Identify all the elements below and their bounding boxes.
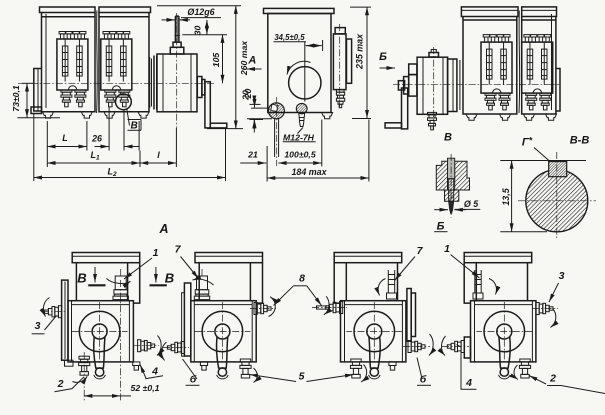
- label Г*: [522, 136, 550, 162]
- callout 7 (bv2): [175, 244, 199, 279]
- svg-text:Б: Б: [437, 221, 445, 233]
- callout 2 (bv4): [529, 373, 605, 394]
- svg-text:5: 5: [299, 371, 305, 383]
- body v3 s2: [522, 17, 556, 115]
- chained dim lines 21/100: [240, 120, 322, 182]
- feet view1: [43, 112, 54, 118]
- bv2 bottom-left screw: [167, 342, 184, 354]
- drum boss v3: [429, 53, 439, 58]
- bv4 bottom stud: [519, 359, 530, 378]
- svg-text:4: 4: [465, 377, 472, 389]
- shaft section circle: [526, 170, 588, 232]
- callout 4 (bv4): [457, 345, 477, 390]
- crank arm v3: [402, 88, 408, 129]
- bv1 bottom stud rotation arrow: [73, 376, 88, 382]
- shaft extension lines: [274, 119, 276, 157]
- label M12-7H: [283, 128, 316, 143]
- bv3 right screw rotation arrow: [429, 334, 433, 356]
- drum vertical center line: [176, 13, 178, 128]
- M12 stud front: [296, 103, 307, 113]
- dim 26: [91, 134, 139, 147]
- pin center line: [450, 154, 452, 218]
- svg-text:А: А: [158, 222, 168, 236]
- svg-text:52 ±0,1: 52 ±0,1: [131, 383, 160, 393]
- svg-text:100±0,5: 100±0,5: [284, 150, 316, 160]
- svg-text:13,5: 13,5: [501, 187, 511, 205]
- bv1 bottom-right foot: [133, 362, 140, 370]
- dim Ø5: [434, 199, 480, 210]
- side section rear plate: [347, 39, 352, 83]
- svg-text:3: 3: [35, 320, 41, 332]
- bv2 left screw rotation arrow: [162, 342, 167, 361]
- handwheel circle: [289, 67, 321, 99]
- clamp left block: [436, 161, 447, 190]
- svg-text:73±0,1: 73±0,1: [11, 85, 21, 112]
- body section 1: [42, 13, 96, 112]
- bv2 bottom stud rotation arrow: [254, 368, 258, 383]
- drum center line v3: [433, 47, 435, 131]
- bv4 left screw: [447, 341, 464, 353]
- svg-text:235 max: 235 max: [355, 33, 365, 70]
- bv2 bottom-right stud: [240, 359, 251, 378]
- dim 260max: [207, 6, 249, 129]
- callout 6 (bv2): [183, 359, 200, 386]
- bv3 right attachment: [407, 289, 411, 342]
- svg-text:В: В: [77, 271, 86, 286]
- bottom view 1 body: [68, 253, 140, 379]
- dim 235max: [350, 7, 371, 118]
- dim 105: [211, 35, 223, 84]
- svg-text:Ø12g6: Ø12g6: [187, 7, 214, 17]
- pin middle: [449, 179, 454, 202]
- svg-text:4: 4: [151, 366, 158, 378]
- horizontal center line: [18, 82, 216, 84]
- clamp lower block: [445, 190, 459, 201]
- bv2 right screw rotation arrow: [269, 297, 276, 317]
- bv2 stud rotation arrow: [193, 279, 214, 285]
- crank grip: [210, 123, 227, 128]
- bv3 bottom-right screw: [408, 341, 425, 353]
- overall height extension line: [157, 5, 241, 7]
- bv4 left screw rotation arrow: [441, 336, 445, 356]
- bv2 right screw: [254, 303, 271, 315]
- pin top slot: [448, 158, 455, 179]
- shaft M12: [174, 16, 176, 42]
- section center line: [556, 152, 558, 238]
- body section 2: [99, 13, 149, 112]
- svg-text:2: 2: [549, 373, 556, 385]
- svg-text:1: 1: [444, 243, 450, 255]
- callout 2: [55, 377, 85, 392]
- cover plate v3 s1: [461, 7, 518, 17]
- bv1 top stud: [113, 269, 128, 300]
- svg-text:А: А: [247, 55, 256, 67]
- drum v3: [417, 57, 448, 114]
- bv1 section plane В right: [150, 267, 175, 286]
- key rect: [549, 162, 567, 177]
- wheel center line: [304, 42, 306, 102]
- bv1 left screw: [45, 306, 62, 318]
- dim 184max: [267, 120, 369, 182]
- contact block v3 s1: [481, 35, 512, 110]
- side section center line: [339, 24, 341, 107]
- dim 20 front: [241, 90, 273, 128]
- bv1 left attachment: [62, 280, 68, 360]
- side section bottom screw: [336, 90, 344, 108]
- svg-text:L: L: [62, 133, 68, 143]
- drum front plate v3: [448, 59, 457, 112]
- dim 13,5: [500, 161, 586, 232]
- svg-text:1: 1: [153, 247, 159, 259]
- bv2 top stud: [194, 269, 209, 300]
- cover plate v3 s2: [522, 7, 557, 17]
- svg-text:2: 2: [57, 378, 64, 390]
- bv3 bottom foot: [389, 362, 396, 370]
- dim 73±0,1: [11, 83, 60, 117]
- view label Б arrow v3: [379, 51, 395, 68]
- bv2 bottom foot: [200, 362, 207, 370]
- bv3 stud rotation arrow: [378, 279, 385, 296]
- svg-text:3: 3: [559, 270, 565, 282]
- dim 30: [182, 20, 227, 35]
- svg-text:26: 26: [91, 134, 102, 144]
- left mounting bracket: [34, 69, 42, 112]
- callout 1 (bv4 pointer): [444, 243, 479, 278]
- cover plate front: [264, 8, 335, 13]
- callout 3: [32, 316, 57, 334]
- right flange and crank shaft: [197, 77, 202, 98]
- bv3 bottom stud rotation arrow: [361, 365, 367, 383]
- callout 5: [250, 371, 354, 383]
- bottom screw v3: [428, 112, 437, 129]
- housing foot front: [322, 113, 333, 119]
- svg-text:20: 20: [241, 90, 251, 101]
- bv4 bottom stud rotation arrow: [514, 365, 518, 380]
- body v3 s1: [463, 17, 517, 115]
- svg-text:21: 21: [247, 150, 258, 160]
- dim 20 crank: [243, 89, 263, 133]
- bottom view 2 body: [191, 253, 263, 379]
- crank grip v3: [385, 123, 401, 128]
- bv1 stud rotation arrow: [107, 279, 131, 284]
- dim L1: [47, 150, 140, 163]
- pin tip: [449, 201, 454, 213]
- svg-text:30: 30: [193, 26, 203, 36]
- dim 34,5±0,5: [274, 33, 323, 51]
- svg-text:В-В: В-В: [570, 135, 590, 147]
- svg-text:В: В: [444, 132, 452, 144]
- callout 7 (bv3): [395, 245, 424, 281]
- rotation arc arrow: [287, 61, 311, 74]
- contact block section 2: [101, 32, 132, 107]
- bottom view 3 body: [334, 253, 406, 379]
- bv4 right screw rotation arrow: [551, 309, 556, 328]
- right bracket v3: [556, 69, 560, 112]
- label Б underlined: [434, 221, 447, 233]
- bv1 bottom-left stud: [79, 356, 90, 375]
- callout 8: [274, 273, 322, 306]
- clamp right block: [455, 161, 470, 190]
- shaft center line: [276, 97, 278, 166]
- cover plate section 2: [99, 7, 151, 13]
- svg-text:105: 105: [211, 53, 221, 68]
- svg-text:б: б: [190, 374, 197, 386]
- dim L: [47, 133, 87, 147]
- bv2 left attachment: [184, 283, 190, 356]
- shaft boss: [170, 47, 184, 54]
- contact block section 1: [57, 32, 88, 107]
- screw axis lines: [42, 308, 558, 348]
- bv4 left attachment: [464, 337, 470, 358]
- bv1 right screw: [138, 340, 155, 352]
- crank adapter plates: [149, 57, 151, 108]
- bv4 top stud rod: [473, 270, 483, 299]
- cam circle with B callout: [116, 94, 132, 110]
- shaft end knob Г: [268, 103, 284, 119]
- dim 52±0,1: [84, 280, 159, 403]
- extension lines below view1: [34, 107, 226, 181]
- contact block v3 s2: [522, 35, 553, 110]
- left flanges v3: [409, 75, 417, 97]
- dim L2: [34, 167, 226, 179]
- svg-text:M12-7H: M12-7H: [283, 132, 315, 142]
- feet v3: [466, 114, 477, 120]
- bv3 left screw: [326, 302, 343, 314]
- callout 4: [140, 365, 163, 379]
- break line between sections: [96, 11, 99, 114]
- callout 1: [124, 247, 159, 279]
- side section cap: [335, 28, 345, 34]
- bottom view 4 body: [464, 253, 536, 379]
- bv4 stud rotation arrow: [489, 279, 496, 295]
- svg-text:В: В: [165, 271, 174, 286]
- svg-text:Б: Б: [379, 51, 387, 63]
- bv4 right screw: [536, 303, 553, 315]
- bv1 right screw rotation arrow: [157, 336, 161, 356]
- bv1 section plane В left: [77, 267, 105, 286]
- crank arm: [205, 82, 210, 128]
- center line v3: [393, 84, 559, 86]
- callout 6 (bv3): [417, 358, 431, 386]
- housing front: [268, 14, 331, 113]
- crank drum: [157, 54, 197, 112]
- break line v3: [518, 11, 521, 114]
- side section block: [333, 34, 346, 90]
- bv1 left screw rotation arrow: [43, 298, 49, 317]
- bv3 left screw rotation arrow: [324, 296, 329, 315]
- svg-text:Ø 5: Ø 5: [464, 199, 479, 209]
- callout 3 (bv4): [549, 270, 565, 302]
- cover plate section 1: [40, 7, 96, 13]
- svg-text:184 max: 184 max: [291, 167, 327, 177]
- svg-text:34,5±0,5: 34,5±0,5: [274, 33, 305, 42]
- bv3 bottom-left stud: [350, 359, 361, 378]
- bv3 top stud rod: [387, 270, 397, 299]
- view label A arrow: [247, 55, 262, 70]
- dim Ø12g6: [162, 7, 222, 20]
- dim l: [140, 150, 176, 163]
- leader to B label: [127, 109, 130, 126]
- svg-text:8: 8: [299, 273, 305, 285]
